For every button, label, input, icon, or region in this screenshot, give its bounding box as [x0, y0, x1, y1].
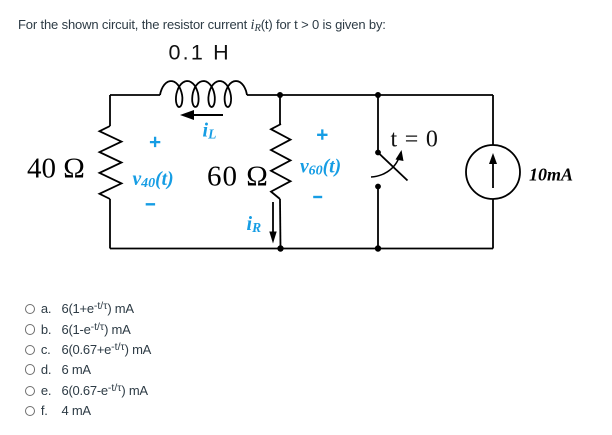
label - (v40 polarity) [146, 203, 155, 205]
label + (v40 polarity) [150, 137, 160, 147]
resistor R60 zigzag [271, 124, 291, 199]
arrow iR (downward beside resistor lead) [272, 202, 274, 237]
option c [25, 341, 152, 357]
svg-text:0.1 H: 0.1 H [169, 41, 231, 65]
svg-text:t = 0: t = 0 [391, 127, 439, 153]
wire: top-left horizontal to inductor [110, 94, 160, 96]
switch SW1 blade [378, 153, 408, 181]
node: top junction switch branch [375, 92, 381, 98]
svg-text:iR: iR [247, 213, 262, 235]
node: bottom junction middle branch [277, 245, 283, 251]
label - (v60 polarity) [313, 196, 322, 198]
inductor L1 0.1H coil [160, 81, 247, 107]
svg-text:v60(t): v60(t) [300, 157, 341, 179]
node: top junction middle branch [277, 92, 283, 98]
wire: inductor to top-right corner [247, 94, 493, 96]
wire: right branch top lead [492, 95, 494, 145]
switch SW1 bottom contact [375, 184, 381, 190]
wire: right branch bottom lead [492, 199, 494, 249]
wire: left branch top lead [109, 95, 111, 126]
option d [25, 362, 91, 377]
switch SW1 top contact [375, 150, 381, 156]
wire: middle branch bottom lead [279, 199, 282, 249]
wire: middle branch top lead [280, 95, 281, 124]
current source I1 circle [466, 145, 520, 199]
wire: left branch bottom lead [109, 199, 111, 249]
option b [25, 321, 131, 337]
resistor R40 zigzag [100, 126, 122, 199]
svg-text:60 Ω: 60 Ω [207, 161, 269, 193]
wire: bottom rail [110, 248, 493, 250]
label + (v60 polarity) [317, 129, 327, 139]
current source I1 arrow (up) [492, 160, 494, 188]
arrow iL (current direction, pointing left) [184, 114, 223, 116]
question title [18, 17, 386, 34]
wire: switch branch bottom lead [377, 187, 379, 249]
option a [25, 300, 134, 316]
switch SW1 opening arc with arrowhead [371, 155, 400, 177]
svg-text:10mA: 10mA [529, 165, 573, 185]
option f [25, 403, 91, 418]
option e [25, 382, 148, 398]
node: bottom junction switch branch [375, 245, 381, 251]
svg-text:iL: iL [203, 120, 217, 142]
svg-text:40 Ω: 40 Ω [27, 153, 85, 185]
svg-text:v40(t): v40(t) [133, 169, 174, 191]
circuit drawing [0, 0, 612, 300]
wire: switch branch top lead [377, 95, 379, 150]
